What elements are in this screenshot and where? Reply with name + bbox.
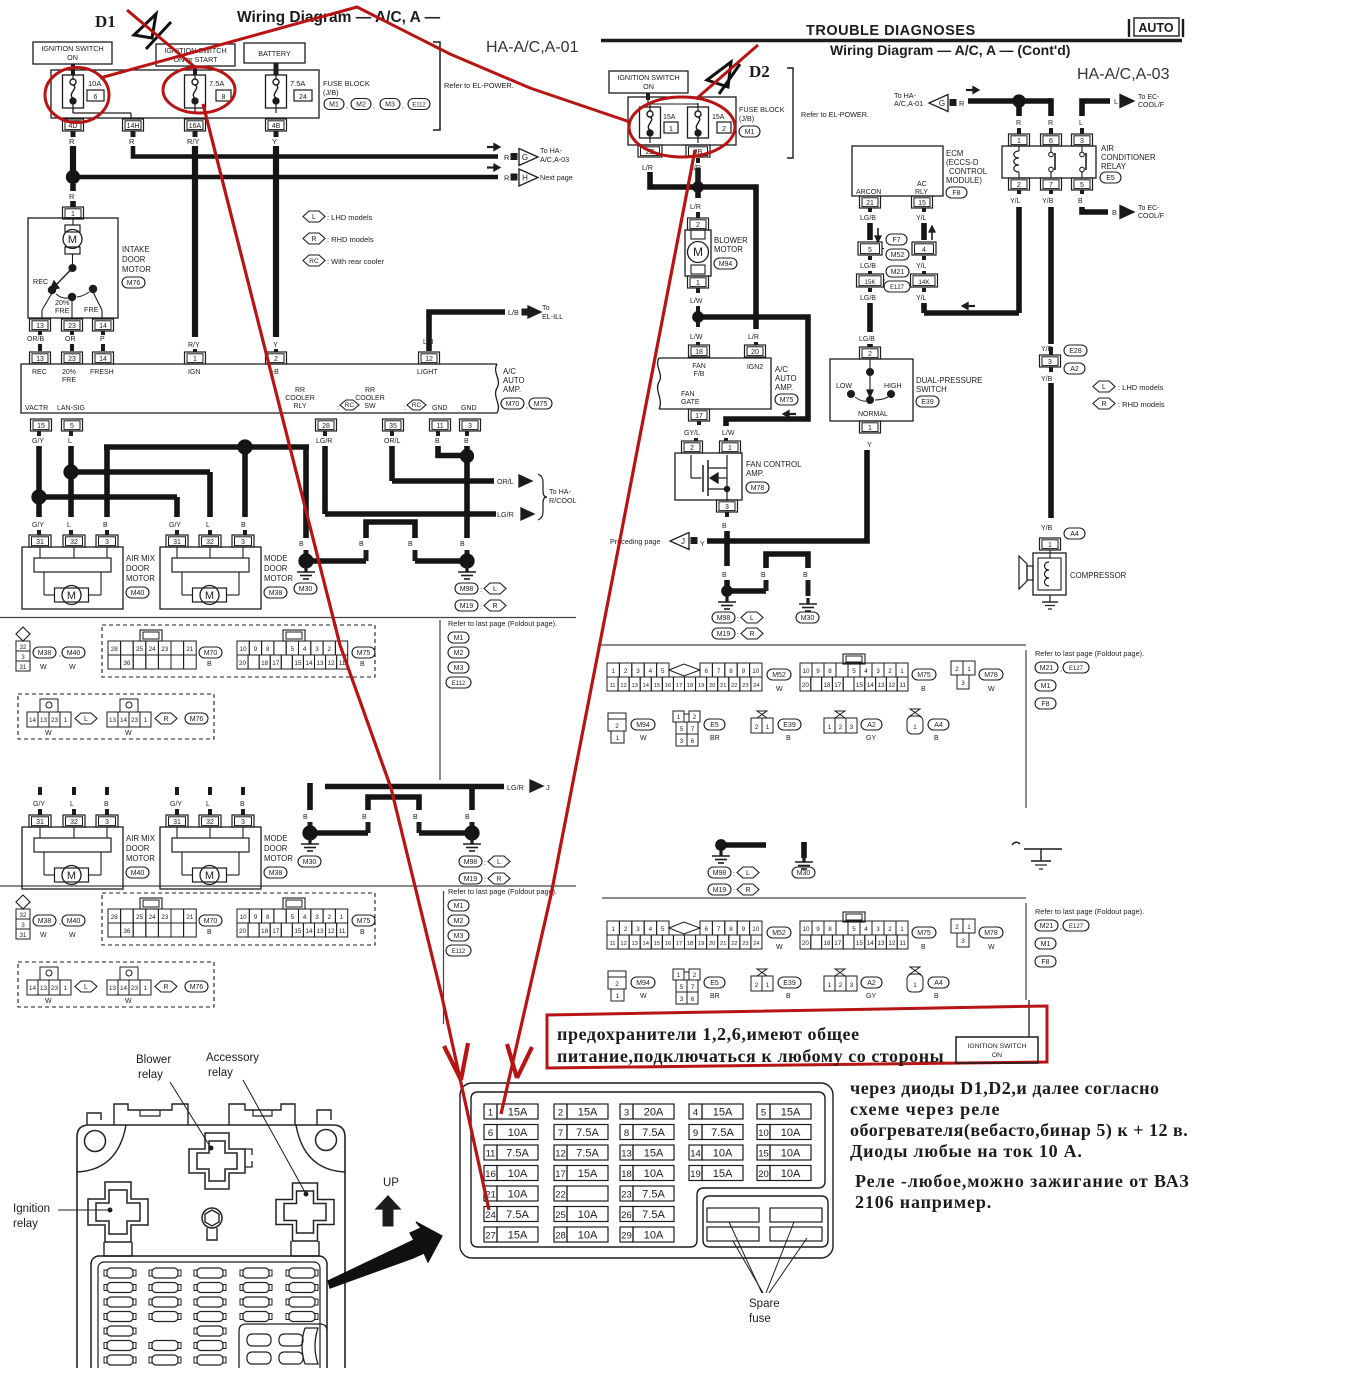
svg-text:A/C,A-01: A/C,A-01 <box>894 99 923 108</box>
svg-text:B: B <box>921 944 926 951</box>
svg-text:8: 8 <box>729 668 733 675</box>
wire x210 down to mode pin32 <box>207 472 213 517</box>
svg-text:7.5A: 7.5A <box>711 1127 734 1139</box>
svg-text:B: B <box>464 438 469 445</box>
svg-text:15A: 15A <box>712 114 725 121</box>
svg-text:обогревателя(вебасто,бинар 5): обогревателя(вебасто,бинар 5) к + 12 в. <box>850 1120 1188 1141</box>
svg-text:20: 20 <box>751 349 759 356</box>
svg-text:B: B <box>360 661 365 668</box>
repeat wire B x310 to M30 <box>307 783 313 810</box>
svg-text:12: 12 <box>620 941 626 947</box>
repeat LG/R J horizontal wire <box>325 784 504 790</box>
svg-text:8: 8 <box>266 646 270 653</box>
svg-text:23: 23 <box>742 683 748 689</box>
connector ref A4 <box>1064 528 1085 539</box>
svg-text:L/R: L/R <box>748 334 759 341</box>
svg-text:FAN: FAN <box>681 391 695 398</box>
svg-text:Refer to last page (Foldout pa: Refer to last page (Foldout page). <box>1035 907 1144 916</box>
stubs motor to amp <box>38 331 42 335</box>
connector ref M2 column <box>448 915 469 926</box>
svg-text::: : <box>733 871 735 878</box>
wire B from pin5 to EC-COOL/F <box>1080 190 1084 194</box>
stub square G <box>511 154 517 160</box>
big black arrow to fuse table <box>328 1222 442 1288</box>
svg-text:10: 10 <box>758 1128 769 1139</box>
wire horizontal3 y497 <box>39 494 177 500</box>
svg-text:Refer to EL-POWER.: Refer to EL-POWER. <box>801 110 869 119</box>
wire L/W below blower <box>696 288 700 293</box>
svg-text:5: 5 <box>661 926 665 933</box>
svg-text:13: 13 <box>109 717 117 724</box>
fuse 23 7.5A <box>620 1186 633 1201</box>
svg-text:M98: M98 <box>460 586 474 593</box>
svg-text:A2: A2 <box>867 980 876 987</box>
fuse 20 10A <box>757 1166 770 1181</box>
svg-text:Refer to last page (Foldout pa: Refer to last page (Foldout page). <box>448 887 557 896</box>
connector ref A4 B <box>928 719 949 730</box>
svg-text:M78: M78 <box>751 485 765 492</box>
svg-text:12: 12 <box>620 683 626 689</box>
svg-text:DUAL-PRESSURE: DUAL-PRESSURE <box>916 376 982 385</box>
label box 8 <box>216 90 231 101</box>
svg-text:1: 1 <box>913 724 917 731</box>
svg-text:MOTOR: MOTOR <box>714 245 743 254</box>
svg-text:B: B <box>761 572 766 579</box>
svg-text:7.5A: 7.5A <box>506 1209 529 1221</box>
ARCON wire chain x870 <box>868 208 872 212</box>
wire R from 14H stub <box>131 131 136 137</box>
svg-text:4: 4 <box>303 646 307 653</box>
box BATTERY <box>244 43 305 63</box>
svg-text:DOOR: DOOR <box>126 844 150 853</box>
svg-text:20%: 20% <box>62 369 76 376</box>
leader blower relay <box>170 1082 211 1148</box>
svg-text:Y/L: Y/L <box>916 263 927 270</box>
svg-text:23: 23 <box>51 985 59 992</box>
svg-text:G/Y: G/Y <box>170 801 182 808</box>
svg-text:M2: M2 <box>356 102 366 109</box>
svg-text:10: 10 <box>752 926 760 933</box>
mesh stubs below amp pins <box>37 431 41 436</box>
svg-text:Y/L: Y/L <box>1010 198 1021 205</box>
page arrow G to HA-A/C,A-03 <box>519 149 538 166</box>
svg-text:12: 12 <box>328 928 336 935</box>
svg-text:2: 2 <box>955 666 959 673</box>
svg-text:M21: M21 <box>891 269 905 276</box>
svg-text:DOOR: DOOR <box>122 255 146 264</box>
svg-text:MOTOR: MOTOR <box>122 265 151 274</box>
svg-text:A4: A4 <box>1070 531 1079 538</box>
svg-text:7: 7 <box>691 726 695 733</box>
svg-text:23: 23 <box>161 646 169 653</box>
svg-text:M75: M75 <box>917 672 931 679</box>
legend right L R models <box>1093 381 1115 392</box>
intake door motor box <box>28 218 118 318</box>
svg-text:F7: F7 <box>892 237 900 244</box>
svg-text:G/Y: G/Y <box>32 522 44 529</box>
svg-text:3: 3 <box>850 724 854 731</box>
svg-text:1: 1 <box>913 982 917 989</box>
svg-text:B: B <box>241 522 246 529</box>
svg-text:MOTOR: MOTOR <box>126 574 155 583</box>
svg-text:: RHD models: : RHD models <box>1118 400 1165 409</box>
red arrowhead left <box>444 1046 461 1080</box>
svg-text:3: 3 <box>961 680 965 687</box>
svg-text:G/Y: G/Y <box>32 438 44 445</box>
heavy wire from G to corner <box>968 98 1051 104</box>
svg-text:GY/L: GY/L <box>684 430 700 437</box>
stub square and R label <box>950 100 956 106</box>
svg-text:20: 20 <box>709 941 715 947</box>
svg-text:M52: M52 <box>772 672 786 679</box>
connector ref E112 <box>408 99 430 110</box>
svg-text:SWITCH: SWITCH <box>916 385 947 394</box>
svg-text:To EC-: To EC- <box>1138 94 1160 101</box>
connector ref M94 <box>714 258 737 269</box>
hex bolt <box>202 1208 222 1228</box>
svg-text:relay: relay <box>208 1067 233 1079</box>
svg-text:4: 4 <box>864 926 868 933</box>
svg-text:To HA-: To HA- <box>540 146 563 155</box>
wire LG/R horizontal y514 <box>325 511 496 517</box>
svg-text:13: 13 <box>40 717 48 724</box>
wire L vertical x71 <box>68 446 74 517</box>
connector A2 small <box>835 969 845 976</box>
arrow To EC-COOL/F top <box>1120 95 1134 108</box>
fuse 8 7.5A <box>620 1125 633 1140</box>
label box 24 <box>294 90 312 101</box>
DPS internals <box>869 359 871 369</box>
ECM pin tabs 21 15 <box>860 196 881 208</box>
svg-text:14: 14 <box>305 928 313 935</box>
svg-text:11: 11 <box>339 928 346 935</box>
svg-text:4: 4 <box>649 668 653 675</box>
fuse 18 10A <box>620 1166 633 1181</box>
svg-text:M38: M38 <box>269 870 283 877</box>
svg-text:M30: M30 <box>797 870 811 877</box>
connector ref M2 <box>351 99 371 110</box>
svg-text:1: 1 <box>340 914 344 921</box>
fuse 8 7.5A <box>185 75 206 108</box>
svg-text:R: R <box>1016 120 1021 127</box>
svg-text:: LHD models: : LHD models <box>327 213 373 222</box>
connector ref M76 <box>185 981 208 992</box>
svg-text:W: W <box>125 730 132 737</box>
connector E5 socket <box>673 711 684 722</box>
svg-text:1: 1 <box>967 924 971 931</box>
svg-text:M70: M70 <box>204 918 218 925</box>
svg-text:L: L <box>1114 97 1118 106</box>
repeat ground M30 <box>308 838 311 844</box>
stubs RY Y to amp <box>193 349 197 352</box>
svg-text:9: 9 <box>693 1128 698 1139</box>
svg-text:14: 14 <box>120 717 128 724</box>
connector grid M75 left <box>283 630 305 641</box>
svg-text:FRE: FRE <box>62 377 76 384</box>
svg-text:B: B <box>207 661 212 668</box>
svg-text:INTAKE: INTAKE <box>122 245 150 254</box>
fuse 14 10A <box>689 1145 702 1160</box>
connector E39 small <box>757 969 767 976</box>
svg-text:2: 2 <box>615 981 619 988</box>
svg-text:24: 24 <box>149 646 157 653</box>
connector ref M52 W <box>767 927 791 938</box>
svg-text:19: 19 <box>698 683 704 689</box>
svg-text:6: 6 <box>94 94 98 101</box>
svg-text:19: 19 <box>698 941 704 947</box>
red long line right to fuse 1 <box>501 150 695 1114</box>
svg-text:11: 11 <box>486 1149 496 1160</box>
svg-text:9: 9 <box>816 926 820 933</box>
svg-text:1: 1 <box>696 280 700 287</box>
svg-text:L: L <box>206 522 210 529</box>
svg-text:14: 14 <box>867 940 875 947</box>
legend hexagon L LHD models <box>303 211 325 222</box>
legend hexagon RC with rear cooler <box>303 255 325 266</box>
ground M30 left mesh <box>304 566 307 572</box>
svg-text:MODE: MODE <box>264 554 287 563</box>
svg-text:AUTO: AUTO <box>775 374 797 383</box>
svg-text:M3: M3 <box>454 933 464 940</box>
svg-text:1: 1 <box>488 1108 493 1119</box>
svg-text:LG/B: LG/B <box>859 336 875 343</box>
svg-text:3: 3 <box>241 539 245 546</box>
svg-text:14: 14 <box>867 682 875 689</box>
svg-text:10: 10 <box>802 926 810 933</box>
stub square H <box>511 174 517 180</box>
svg-text:GND: GND <box>432 405 448 412</box>
svg-text:20: 20 <box>802 682 810 689</box>
svg-text:A4: A4 <box>934 722 943 729</box>
svg-text:13: 13 <box>631 941 637 947</box>
svg-text:2: 2 <box>839 724 843 731</box>
wire L/W bridge to fan control amp <box>701 317 808 426</box>
connector box 15K <box>857 274 884 287</box>
svg-text::: : <box>484 877 486 884</box>
red circle around fuse 8 <box>163 67 235 113</box>
svg-text:M1: M1 <box>454 635 464 642</box>
svg-text:M38: M38 <box>38 650 52 657</box>
svg-text:5: 5 <box>680 984 684 991</box>
svg-text:M98: M98 <box>464 859 478 866</box>
svg-text::: : <box>337 405 339 412</box>
junction dot G/Y <box>32 490 46 504</box>
svg-text:W: W <box>640 993 647 1000</box>
svg-text::: : <box>733 888 735 895</box>
svg-text:21: 21 <box>186 914 194 921</box>
svg-text:1: 1 <box>728 445 732 452</box>
svg-text:GY: GY <box>866 993 876 1000</box>
svg-text:M19: M19 <box>713 887 727 894</box>
repeat junction dot M30 <box>303 826 317 840</box>
wire R from 14H turning right <box>133 146 498 157</box>
connector grid M70 <box>140 630 162 641</box>
tab 4B <box>266 119 287 131</box>
svg-text:L: L <box>1079 120 1083 127</box>
svg-text:J: J <box>546 783 550 792</box>
svg-text:ON: ON <box>643 82 654 91</box>
svg-text:15A: 15A <box>781 1107 801 1119</box>
svg-text:fuse: fuse <box>749 1313 771 1325</box>
svg-text:A4: A4 <box>934 980 943 987</box>
svg-text:4: 4 <box>649 926 653 933</box>
junction dot L/W <box>693 312 703 322</box>
svg-text:18: 18 <box>823 682 831 689</box>
svg-text:13: 13 <box>109 985 117 992</box>
right vertical divider upper x1026 <box>1025 650 1027 808</box>
svg-text:ECM: ECM <box>946 149 963 158</box>
tab 14 intake <box>93 319 114 331</box>
svg-text:Y/L: Y/L <box>916 215 927 222</box>
svg-text:1: 1 <box>766 724 770 731</box>
fuse 2 15A <box>554 1104 567 1119</box>
box IGNITION SWITCH ON or START <box>156 44 235 66</box>
svg-text:SW: SW <box>364 403 376 410</box>
up arrow solid <box>376 1196 400 1209</box>
connector ref M30 <box>294 583 317 594</box>
bridge M98 to M30 right <box>732 588 766 594</box>
svg-text:14: 14 <box>120 985 128 992</box>
svg-text:LG/R: LG/R <box>507 783 524 792</box>
20% FRE contact dot <box>68 293 75 300</box>
svg-text:M30: M30 <box>303 859 317 866</box>
svg-text:питание,подключаться к любому: питание,подключаться к любому со стороны <box>557 1046 944 1066</box>
connector A4 small <box>910 709 920 716</box>
svg-text:L: L <box>70 801 74 808</box>
svg-text:17: 17 <box>272 928 280 935</box>
connector ref F8 right col <box>1035 956 1056 967</box>
svg-text:3: 3 <box>961 938 965 945</box>
svg-text:FAN: FAN <box>692 363 706 370</box>
svg-text:B: B <box>786 993 791 1000</box>
svg-text:E5: E5 <box>1106 175 1115 182</box>
svg-text:1: 1 <box>677 972 681 979</box>
tab 14H <box>123 119 144 131</box>
wire Y/B long down <box>1049 347 1053 355</box>
svg-text:схеме через реле: схеме через реле <box>850 1099 1001 1119</box>
repeat wire B x472 from LG/R line <box>469 786 475 810</box>
red circle around fuse 6 <box>45 68 109 123</box>
small arrow above H line <box>487 166 496 168</box>
svg-text:M70: M70 <box>506 401 520 408</box>
svg-text:RC: RC <box>309 258 319 265</box>
fan control amp pins 2 1 <box>682 441 703 453</box>
air mix door motor block (repeat) <box>29 815 51 827</box>
svg-text:22: 22 <box>731 941 737 947</box>
svg-text:Диоды любые на ток 10 А.: Диоды любые на ток 10 А. <box>850 1141 1083 1161</box>
svg-text:FRE: FRE <box>55 306 70 315</box>
svg-text:1: 1 <box>64 985 68 992</box>
stub below junction to blower <box>695 192 701 198</box>
mount hole left <box>85 1131 106 1152</box>
svg-text:OR/L: OR/L <box>497 477 514 486</box>
svg-text:10A: 10A <box>644 1168 664 1180</box>
connector ref M3 column <box>448 662 469 673</box>
svg-text:8: 8 <box>729 926 733 933</box>
svg-text:AMP.: AMP. <box>503 385 521 394</box>
svg-text:HA-A/C,A-01: HA-A/C,A-01 <box>486 39 579 56</box>
air conditioner relay box <box>1002 146 1096 178</box>
svg-text:9: 9 <box>742 926 746 933</box>
sub box pill fuses <box>247 1334 271 1346</box>
svg-text:22: 22 <box>731 683 737 689</box>
svg-text:15: 15 <box>37 423 45 430</box>
wire B x467 vertical <box>464 446 470 538</box>
brace To HA-R/COOL <box>538 474 547 520</box>
svg-text:M76: M76 <box>190 716 204 723</box>
svg-text::: : <box>480 587 482 594</box>
svg-text:RC: RC <box>412 402 422 409</box>
svg-text:W: W <box>776 944 783 951</box>
fuse 3 20A <box>620 1104 633 1119</box>
svg-text:M1: M1 <box>745 129 755 136</box>
page arrow H next page <box>519 169 538 186</box>
svg-text:8: 8 <box>624 1128 629 1139</box>
svg-text:5: 5 <box>661 668 665 675</box>
label box 6 <box>87 90 104 101</box>
wire to 14K <box>922 256 926 260</box>
svg-text:E127: E127 <box>890 285 905 291</box>
wire L from pin3 up and right <box>1080 128 1084 134</box>
svg-text:M94: M94 <box>636 980 650 987</box>
svg-text:R: R <box>69 192 75 201</box>
svg-text:3: 3 <box>1080 138 1084 145</box>
svg-text:relay: relay <box>13 1218 38 1230</box>
svg-text:3: 3 <box>315 914 319 921</box>
svg-text:16A: 16A <box>189 123 202 130</box>
connector ref M2 column <box>448 647 469 658</box>
svg-text:1: 1 <box>64 717 68 724</box>
fuse 6 10A <box>63 75 84 108</box>
corner down to pin6 <box>1048 98 1054 116</box>
svg-text:14: 14 <box>29 985 37 992</box>
fuse 6 10A <box>484 1125 497 1140</box>
spare fuse compartment box <box>703 1196 828 1247</box>
svg-text:20: 20 <box>802 940 810 947</box>
connector ref E112 column <box>446 677 471 688</box>
svg-text:L: L <box>68 438 72 445</box>
svg-text:5: 5 <box>291 646 295 653</box>
wire L/R to IGN2 corner <box>701 187 756 329</box>
svg-text:M21: M21 <box>1040 923 1054 930</box>
svg-text:REC: REC <box>33 277 48 286</box>
fuse 25 10A <box>554 1207 567 1222</box>
svg-text:3: 3 <box>850 982 854 989</box>
svg-text:24: 24 <box>299 94 307 101</box>
svg-text:16: 16 <box>665 941 671 947</box>
svg-text:BATTERY: BATTERY <box>258 49 291 58</box>
svg-text:MOTOR: MOTOR <box>126 854 155 863</box>
arrow LG/R J <box>530 780 543 792</box>
ignition relay plus shape <box>88 1182 148 1242</box>
orphan ground M30 right section <box>801 842 807 858</box>
svg-text:AUTO: AUTO <box>503 376 525 385</box>
spare fuse slots <box>707 1208 759 1222</box>
svg-text:3: 3 <box>315 646 319 653</box>
ECM box <box>852 146 943 196</box>
svg-text:AMP.: AMP. <box>746 469 764 478</box>
connector grid M75 left <box>283 898 305 909</box>
svg-text:20: 20 <box>709 683 715 689</box>
svg-text:L/R: L/R <box>690 204 701 211</box>
svg-text:1: 1 <box>1017 138 1021 145</box>
svg-text:Blower: Blower <box>136 1054 171 1066</box>
svg-text:2106 например.: 2106 например. <box>855 1192 992 1212</box>
svg-text:E39: E39 <box>783 722 796 729</box>
svg-text:M98: M98 <box>713 870 727 877</box>
svg-text:10A: 10A <box>781 1168 801 1180</box>
svg-text:15: 15 <box>654 941 660 947</box>
